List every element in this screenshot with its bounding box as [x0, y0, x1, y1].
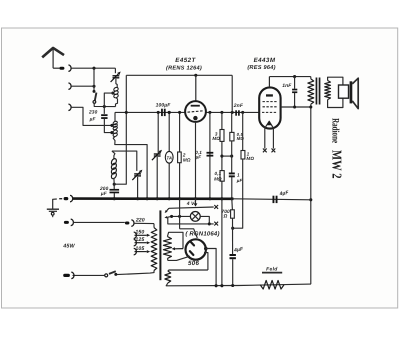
svg-text:1nF: 1nF	[282, 83, 292, 89]
svg-text:150: 150	[135, 230, 144, 236]
svg-text:506: 506	[188, 260, 199, 267]
svg-text:E452T: E452T	[175, 57, 196, 64]
svg-text:(RES 964): (RES 964)	[247, 64, 275, 71]
svg-text:2nF: 2nF	[233, 103, 244, 109]
svg-text:Radione: Radione	[329, 118, 340, 143]
svg-text:220: 220	[135, 217, 145, 223]
svg-text:45W: 45W	[62, 244, 75, 250]
svg-text:( RGN1064): ( RGN1064)	[185, 230, 219, 237]
svg-text:Ω: Ω	[222, 213, 227, 219]
svg-text:µF: µF	[100, 191, 108, 197]
svg-text:(RENS 1264): (RENS 1264)	[166, 65, 202, 72]
svg-text:µF: µF	[89, 117, 97, 123]
svg-text:MΩ: MΩ	[212, 136, 220, 141]
svg-text:Feld: Feld	[266, 267, 278, 273]
svg-text:µF: µF	[236, 178, 243, 183]
svg-text:4 V: 4 V	[186, 201, 195, 207]
svg-text:E443M: E443M	[254, 57, 276, 64]
svg-text:µF: µF	[195, 155, 202, 160]
svg-text:125: 125	[135, 237, 144, 243]
svg-text:1: 1	[237, 173, 240, 178]
svg-text:105: 105	[135, 246, 144, 252]
svg-text:MW 2: MW 2	[330, 150, 345, 179]
svg-text:TA: TA	[166, 155, 172, 160]
svg-text:100µF: 100µF	[156, 102, 172, 108]
svg-text:MΩ: MΩ	[214, 177, 222, 182]
svg-text:MΩ: MΩ	[246, 156, 254, 161]
svg-text:0,1: 0,1	[215, 171, 222, 176]
svg-text:230: 230	[88, 109, 98, 115]
svg-text:MΩ: MΩ	[183, 157, 191, 162]
